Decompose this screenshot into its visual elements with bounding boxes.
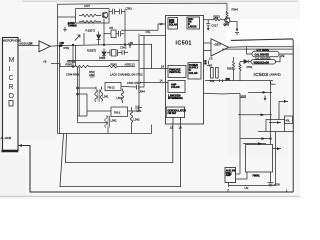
coil L504: [121, 89, 124, 104]
ground mark: [235, 33, 239, 34]
svg-text:O: O: [9, 93, 15, 100]
capacitor C544: [136, 106, 142, 110]
wire pa2 in: [78, 94, 112, 116]
diode D503 arrow: [75, 35, 80, 41]
wire vertical x240: [239, 93, 241, 174]
svg-text:C540: C540: [127, 81, 134, 85]
arrow wire y143: [243, 143, 266, 145]
junction arrows y80: [220, 79, 223, 82]
pin wire 18: [140, 36, 166, 45]
arrow wire y138: [240, 138, 271, 140]
resistor R506: [79, 14, 101, 17]
wire row y33: [104, 33, 111, 35]
arrow wire y92: [248, 91, 272, 93]
svg-text:L5(: L5(: [245, 186, 249, 190]
ic block power supply: [188, 63, 201, 80]
svg-text:AL 100M: AL 100M: [1, 136, 12, 140]
wire node x84: [83, 33, 85, 45]
pin wire 24: [140, 44, 168, 68]
wire vertical x79: [78, 67, 80, 116]
wire ic501 demod out: [204, 92, 241, 95]
svg-text:40L: 40L: [286, 118, 291, 122]
crystal X501: [112, 50, 117, 57]
svg-text:R50L: R50L: [227, 67, 234, 71]
wire opamp output to frame: [229, 46, 293, 49]
wire crystals bottom bus: [205, 80, 273, 82]
crystal X502: [211, 68, 214, 79]
resistor R507: [79, 21, 101, 24]
wire bus y133: [58, 133, 152, 135]
wire vertical x73: [72, 45, 74, 67]
wire frame top lower: [222, 48, 293, 50]
wire pa1 out: [121, 86, 137, 89]
wire mic output: [18, 45, 39, 47]
wire b+ bracket: [51, 64, 60, 68]
wire jog x270: [271, 81, 276, 85]
svg-text:C5L: C5L: [146, 30, 151, 34]
svg-text:COLOR: COLOR: [189, 72, 198, 75]
svg-text:D504: D504: [99, 56, 106, 60]
svg-text:R: R: [9, 84, 14, 91]
node junctions x77: [77, 87, 79, 89]
capacitor C545: [91, 75, 93, 79]
svg-text:LACK CHANNEL ON VT02: LACK CHANNEL ON VT02: [110, 73, 143, 77]
svg-text:U54: U54: [137, 109, 142, 113]
box PA2: [111, 107, 128, 117]
wire vertical x125: [124, 9, 126, 45]
wire vertical x139: [138, 34, 140, 111]
resistor R523: [204, 19, 225, 21]
arrow inside box: [269, 122, 281, 124]
wire d501 left: [239, 62, 241, 81]
wire vertical long left: [59, 46, 61, 134]
svg-text:IC503: IC503: [254, 72, 269, 78]
diode D504: [102, 49, 106, 59]
wire row y60: [68, 60, 139, 62]
node junction dots on main bus: [59, 45, 61, 47]
wire pill1 right: [247, 47, 294, 54]
svg-text:S0: S0: [209, 64, 213, 68]
box PA1: [105, 83, 121, 91]
svg-text:LABOR: LABOR: [188, 25, 197, 28]
svg-text:24: 24: [161, 65, 164, 69]
tick marks y60: [207, 61, 210, 66]
wire bottom y185: [229, 185, 276, 187]
svg-text:C543: C543: [120, 46, 127, 50]
pin stub bottom left: [172, 118, 174, 125]
capacitor C506: [120, 9, 126, 14]
svg-text:FM |C: FM |C: [108, 85, 115, 89]
amplifier A1: [39, 41, 50, 52]
arrow out right y148: [273, 148, 282, 150]
resistor R544: [226, 11, 228, 18]
wire pill2 right: [276, 56, 281, 62]
stub below aud box: [228, 183, 230, 188]
diode D502: [97, 32, 101, 45]
svg-text:R(DET): R(DET): [87, 48, 96, 52]
svg-text:1B: 1B: [170, 126, 173, 130]
driver module pill2: [251, 60, 276, 64]
svg-text:INTERMEDIA: INTERMEDIA: [168, 97, 183, 100]
svg-text:TUNING: TUNING: [68, 24, 77, 27]
svg-text:-C517: -C517: [211, 23, 219, 27]
svg-text:U544: U544: [139, 90, 146, 94]
svg-text:VERTICAL: VERTICAL: [169, 71, 181, 74]
wire to R544: [226, 3, 228, 11]
transistor Q501: [225, 18, 230, 23]
page border bottom: [0, 195, 300, 197]
arrowhead into mic: [18, 144, 22, 147]
svg-text:R54(: R54(: [89, 70, 95, 74]
svg-text:(AWAVE): (AWAVE): [270, 73, 281, 77]
small box R510: [111, 30, 116, 38]
wire box bottom to frame: [258, 131, 294, 133]
svg-text:1PE: 1PE: [280, 54, 285, 58]
capacitor C517: [206, 20, 210, 30]
arrow top right: [279, 101, 288, 119]
wire opamp input b: [204, 50, 212, 52]
svg-text:C54(: C54(: [89, 73, 95, 77]
svg-text:R546: R546: [73, 73, 80, 77]
wire t2 bottom: [107, 128, 109, 134]
wire vertical x75.5: [75, 45, 77, 67]
box afc small: [285, 116, 293, 124]
wire aud box right: [236, 172, 248, 179]
svg-text:FM50(: FM50(: [253, 175, 260, 178]
wire loop C: [66, 124, 173, 163]
driver module pill1: [252, 51, 279, 56]
svg-text:Q5*1: Q5*1: [224, 23, 230, 26]
svg-text:SOLAR: SOLAR: [169, 24, 178, 27]
svg-text:R5: R5: [110, 26, 114, 30]
svg-text:1M. DRIVER: 1M. DRIVER: [255, 56, 270, 60]
tick 14.8: [240, 97, 246, 99]
wire loop B: [60, 124, 181, 187]
svg-text:C: C: [9, 75, 14, 82]
svg-text:+5B: +5B: [128, 41, 133, 45]
wire emitter down: [230, 22, 239, 31]
svg-text:D50(: D50(: [247, 65, 253, 69]
svg-text:M: M: [9, 57, 15, 64]
svg-text:VIDEO(C)+DR: VIDEO(C)+DR: [254, 61, 270, 64]
wire top bus: [58, 2, 228, 5]
background paper: [0, 0, 300, 199]
arrow wire y113: [238, 114, 272, 116]
supply arrow +5B: [129, 44, 131, 48]
svg-text:MICROPHONE: MICROPHONE: [3, 39, 22, 43]
svg-text:R543: R543: [66, 63, 73, 67]
svg-text:R542: R542: [111, 63, 118, 67]
wire to transformer L542: [78, 122, 109, 124]
svg-text:FM DET: FM DET: [168, 112, 177, 115]
svg-text:L507: L507: [84, 4, 90, 8]
svg-text:EXT DRIVE: EXT DRIVE: [257, 49, 270, 52]
svg-text:36: 36: [29, 41, 32, 45]
pin wire 14: [140, 82, 168, 84]
page border top: [22, 0, 298, 2]
svg-text:R544: R544: [232, 7, 239, 11]
resistor R521: [233, 57, 235, 81]
box sync sep: [266, 120, 285, 132]
ic sub-block oscillator: [168, 18, 178, 30]
wire vertical x77: [77, 67, 79, 123]
wire vertical feed left: [57, 4, 59, 133]
IC501 main outline: [166, 16, 204, 125]
svg-text:L542: L542: [111, 118, 117, 122]
capacitor C507: [116, 31, 124, 37]
tick down x265: [264, 96, 266, 101]
wire t1 feeds: [79, 87, 101, 95]
transformer T1 L541: [95, 90, 98, 102]
component box L507: [76, 9, 110, 23]
svg-text:R547: R547: [135, 81, 142, 85]
svg-text:CAL DRIVER: CAL DRIVER: [255, 54, 270, 57]
diode D501: [240, 60, 251, 64]
svg-text:P.(DET): P.(DET): [86, 28, 95, 32]
svg-text:+500: +500: [274, 182, 281, 186]
wire vertical x270: [270, 81, 272, 145]
wire resistor row R543: [60, 65, 135, 68]
svg-text:L543: L543: [134, 118, 140, 122]
ic block fm vertical: [168, 66, 186, 78]
capacitor C505: [109, 9, 119, 14]
pin stub bottom right: [180, 118, 182, 125]
svg-text:9B: 9B: [60, 45, 63, 48]
svg-text:+B: +B: [43, 60, 47, 64]
wire loop A: [19, 146, 294, 193]
svg-text:+5507: +5507: [214, 43, 222, 47]
svg-text:R50(: R50(: [64, 46, 70, 50]
wire to pin 18: [121, 24, 166, 30]
svg-text:C544: C544: [66, 73, 73, 77]
svg-text:COLOR: COLOR: [171, 86, 180, 89]
wire amp output main bus: [50, 44, 152, 46]
wire vertical x151 low: [151, 125, 153, 134]
wire opamp input a: [204, 42, 212, 44]
svg-text:18: 18: [160, 22, 163, 26]
svg-text:C5: C5: [209, 56, 213, 60]
crystal X503: [216, 68, 219, 79]
op-amp U502: [211, 39, 229, 56]
svg-text:IC501: IC501: [176, 40, 192, 46]
svg-text:L504: L504: [117, 96, 123, 100]
svg-text:16: 16: [204, 59, 207, 63]
capacitor C543: [119, 50, 128, 55]
svg-text:1A: 1A: [179, 126, 182, 130]
coil L543: [130, 107, 133, 134]
svg-text:C541: C541: [126, 7, 133, 11]
microphone block MIC: [3, 38, 19, 151]
frame right edge: [292, 39, 295, 192]
pin 16 stubs: [204, 60, 208, 64]
microphone element symbol: [9, 101, 13, 107]
svg-text:14: 14: [160, 79, 163, 83]
ic sub-block fm detector: [187, 17, 200, 29]
wire second top: [58, 16, 76, 18]
transformer T2 L542: [105, 116, 110, 128]
svg-text:(50): (50): [226, 78, 230, 81]
svg-text:14.8: 14.8: [241, 94, 247, 98]
ground mark left: [63, 27, 67, 31]
svg-text:ASRCLY: ASRCLY: [125, 63, 136, 67]
wire heavy rail top: [231, 39, 293, 41]
svg-text:FM |(: FM |(: [114, 110, 120, 114]
ic block demodulator: [166, 107, 184, 118]
transistor Q502: [102, 12, 108, 18]
svg-text:I: I: [9, 66, 11, 73]
svg-text:R0(: R0(: [210, 79, 214, 83]
audio switch box: [225, 168, 236, 183]
svg-text:+B3: +B3: [213, 16, 218, 20]
junction x73: [72, 66, 74, 68]
ic block amp color: [168, 81, 185, 93]
svg-text:L541: L541: [103, 94, 109, 98]
microphone block bottom thick edge: [2, 150, 19, 153]
wire pa2 out: [128, 110, 140, 112]
wire vertical x275: [275, 132, 277, 186]
ground G2: [268, 172, 274, 186]
svg-text:AMP: AMP: [226, 174, 232, 177]
box audio output: [246, 145, 273, 173]
wire transistor down: [103, 19, 105, 45]
capacitor C540: [137, 45, 145, 90]
